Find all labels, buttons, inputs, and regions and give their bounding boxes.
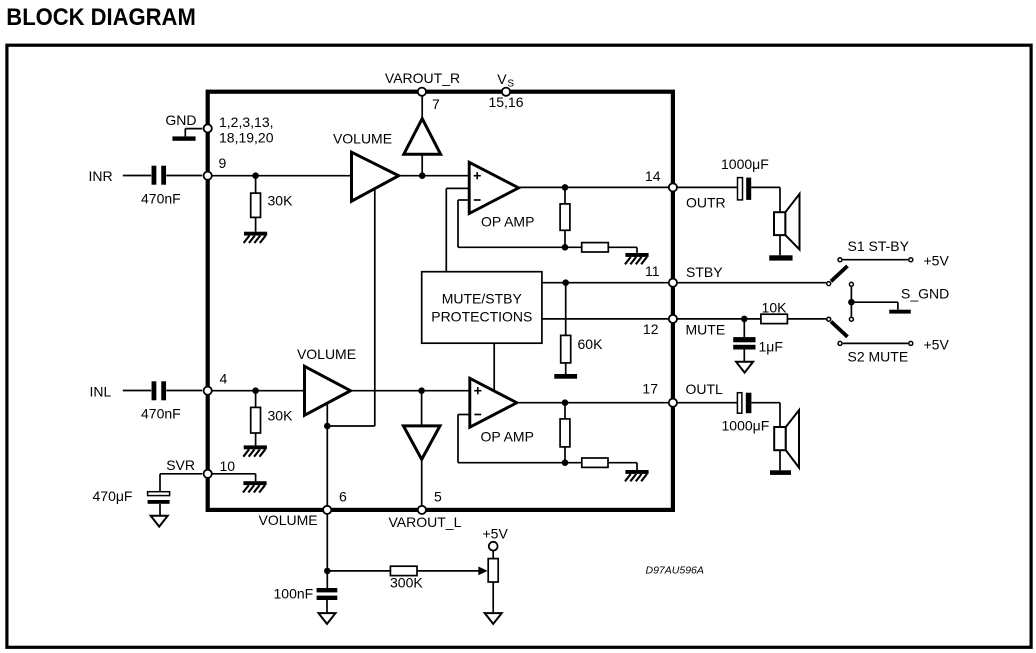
svg-text:VOLUME: VOLUME bbox=[297, 346, 356, 362]
wire node to R1 bbox=[255, 176, 257, 193]
ground (R6, hatched) bbox=[244, 445, 267, 449]
ground (R8, hatched) bbox=[625, 470, 648, 474]
wire R5 to switch S2 bbox=[787, 318, 826, 320]
svg-text:30K: 30K bbox=[268, 193, 294, 209]
wire pin 9 to volume R bbox=[211, 175, 351, 177]
wire U3 inverting input feedback bbox=[458, 414, 470, 416]
svg-text:MUTE/STBY: MUTE/STBY bbox=[442, 291, 523, 307]
wire B1 apex to pin 7 bbox=[421, 96, 423, 120]
potentiometer RV1 body bbox=[488, 559, 498, 582]
node U2 output junction bbox=[562, 184, 569, 191]
svg-text:PROTECTIONS: PROTECTIONS bbox=[431, 309, 532, 325]
terminal +5V (potentiometer) bbox=[489, 542, 498, 551]
switch S1 pole contact bbox=[827, 282, 831, 286]
wire R2 to feedback node bbox=[564, 230, 566, 247]
node L-channel input junction bbox=[252, 387, 259, 394]
svg-text:17: 17 bbox=[642, 381, 658, 397]
wire C1 to pin 9 bbox=[166, 175, 202, 177]
pin 10 (SVR) bbox=[204, 470, 212, 478]
resistor R7 feedback (left, vertical) bbox=[560, 419, 570, 447]
wire GND pin to ground symbol bbox=[185, 128, 202, 130]
svg-text:14: 14 bbox=[645, 168, 661, 184]
svg-text:V: V bbox=[497, 71, 507, 87]
svg-text:INR: INR bbox=[89, 168, 113, 184]
capacitor C6 470uF (electrolytic) bbox=[148, 492, 170, 496]
svg-text:OUTR: OUTR bbox=[686, 195, 726, 211]
ground (RV1 triangle) bbox=[485, 613, 502, 624]
capacitor C4 470nF (INL input) bbox=[152, 381, 157, 400]
svg-text:VOLUME: VOLUME bbox=[259, 512, 318, 528]
svg-text:100nF: 100nF bbox=[274, 586, 314, 602]
svg-text:12: 12 bbox=[643, 321, 659, 337]
resistor R9 300K bbox=[390, 566, 417, 575]
node STBY junction bbox=[562, 279, 569, 286]
wire feedback node to R8 bbox=[565, 462, 582, 464]
switch S1 lever bbox=[831, 266, 848, 281]
switch common link contact lower bbox=[849, 317, 853, 321]
node S_GND junction bbox=[848, 299, 855, 306]
block MUTE/STBY PROTECTIONS bbox=[422, 272, 542, 344]
svg-text:S2 MUTE: S2 MUTE bbox=[848, 349, 909, 365]
wire node to R4 bbox=[565, 283, 567, 336]
wire node to C3 bbox=[743, 319, 745, 337]
switch S2 lever bbox=[831, 322, 848, 337]
wire R1 to ground bbox=[255, 217, 257, 231]
wire terminal to RV1 bbox=[492, 551, 494, 559]
ground (R1, hatched) bbox=[244, 232, 267, 236]
svg-text:5: 5 bbox=[434, 489, 442, 505]
op-amp U2 OP AMP (right) bbox=[469, 162, 518, 213]
wire R3 to ground bbox=[608, 246, 637, 248]
wire node to R7 bbox=[564, 403, 566, 419]
svg-text:OP AMP: OP AMP bbox=[481, 214, 534, 230]
speaker LS2 (left) bbox=[774, 427, 786, 450]
wire C6 to ground bbox=[159, 504, 161, 516]
wire feedback node to R3 bbox=[565, 246, 582, 248]
wire S1 contact to +5V terminal bbox=[843, 259, 908, 261]
ground (C3 triangle) bbox=[736, 362, 753, 373]
wire protections to pin 12 bbox=[542, 318, 668, 320]
resistor R3 feedback (right, horizontal) bbox=[582, 243, 609, 252]
capacitor C7 100nF bbox=[317, 588, 338, 592]
resistor R6 30K (left) bbox=[251, 407, 261, 433]
wire R4 to ground bbox=[565, 363, 567, 374]
switch S2 fixed contact bbox=[838, 341, 842, 345]
wire volume control line (pin 6) bbox=[326, 402, 328, 505]
wire LS2 to ground bbox=[779, 450, 781, 470]
wire INL lead bbox=[123, 390, 151, 392]
svg-text:S_GND: S_GND bbox=[901, 286, 949, 302]
svg-text:OP AMP: OP AMP bbox=[481, 429, 534, 445]
svg-text:60K: 60K bbox=[578, 336, 604, 352]
wire node to S_GND ground bbox=[851, 301, 898, 303]
wire pin 17 to C5 bbox=[677, 402, 737, 404]
ground (SVR, hatched) bbox=[243, 481, 266, 485]
wire pin 11 to S1 bbox=[677, 282, 826, 284]
wire R9 to potentiometer wiper bbox=[417, 570, 480, 572]
pin 9 (INR) bbox=[204, 172, 212, 180]
resistor R8 feedback (left, horizontal) bbox=[582, 458, 608, 467]
wire C4 to pin 4 bbox=[166, 390, 202, 392]
wire A2 output to op-amp bbox=[351, 390, 470, 392]
svg-text:BLOCK DIAGRAM: BLOCK DIAGRAM bbox=[6, 4, 196, 31]
svg-text:+5V: +5V bbox=[924, 336, 950, 352]
svg-text:STBY: STBY bbox=[686, 264, 723, 280]
svg-text:10K: 10K bbox=[762, 300, 788, 316]
svg-text:1000μF: 1000μF bbox=[721, 156, 769, 172]
svg-text:S1 ST-BY: S1 ST-BY bbox=[848, 238, 910, 254]
node U3 feedback junction bbox=[562, 459, 569, 466]
svg-text:470nF: 470nF bbox=[141, 191, 181, 207]
svg-text:7: 7 bbox=[432, 96, 440, 112]
resistor R5 10K bbox=[761, 314, 788, 323]
terminal +5V (S1) bbox=[909, 258, 913, 262]
wire switch common link bbox=[850, 287, 852, 317]
svg-text:VOLUME: VOLUME bbox=[333, 131, 392, 147]
wire R8 to ground bbox=[608, 462, 637, 464]
ground (LS1 bar) bbox=[769, 255, 792, 260]
wire mute control to U3 bbox=[493, 343, 495, 391]
wire RV1 to ground bbox=[492, 582, 494, 613]
wire U2 output to pin 14 bbox=[519, 186, 669, 188]
resistor R2 feedback (right, vertical) bbox=[560, 204, 570, 230]
wire volume control feedback (right) bbox=[374, 189, 376, 427]
ground (C6 triangle) bbox=[151, 516, 168, 527]
node MUTE junction bbox=[741, 316, 748, 323]
wire pin 4 to volume L bbox=[211, 390, 305, 392]
wire INR lead bbox=[123, 175, 151, 177]
node R-channel input junction bbox=[252, 172, 259, 179]
pin 14 (OUTR) bbox=[669, 183, 677, 191]
svg-text:+5V: +5V bbox=[483, 526, 509, 542]
svg-text:18,19,20: 18,19,20 bbox=[219, 130, 274, 146]
svg-text:VAROUT_L: VAROUT_L bbox=[389, 514, 462, 530]
ground (R4 bar) bbox=[554, 374, 577, 379]
node U2 feedback junction bbox=[562, 244, 569, 251]
op-amp U3 OP AMP (left) bbox=[470, 378, 517, 427]
pin 11 (STBY) bbox=[669, 279, 677, 287]
svg-text:S: S bbox=[507, 79, 514, 90]
svg-text:INL: INL bbox=[90, 384, 112, 400]
svg-text:1,2,3,13,: 1,2,3,13, bbox=[219, 114, 274, 130]
svg-text:4: 4 bbox=[220, 371, 228, 387]
svg-text:1000μF: 1000μF bbox=[722, 418, 770, 434]
svg-text:1μF: 1μF bbox=[759, 339, 783, 355]
resistor R4 60K bbox=[561, 335, 571, 363]
pin 15,16 (Vs) bbox=[502, 88, 510, 96]
pin 17 (OUTL) bbox=[669, 399, 677, 407]
wire C5 to speaker LS2 bbox=[751, 402, 780, 404]
resistor R1 30K (right) bbox=[251, 193, 261, 217]
wire U2 inverting input feedback bbox=[458, 199, 469, 201]
wire node to C7 bbox=[326, 571, 328, 588]
wire pin 10 to ground (right) bbox=[211, 473, 255, 475]
wire mute control to U2 bbox=[445, 188, 447, 271]
buffer B2 VAROUT_L (points down) bbox=[403, 426, 440, 460]
wire R7 to feedback node bbox=[564, 447, 566, 463]
svg-text:OUTL: OUTL bbox=[686, 381, 724, 397]
pin 6 (VOLUME) bbox=[323, 506, 331, 514]
IC block outline U1 bbox=[208, 92, 673, 510]
node U3 output junction bbox=[562, 399, 569, 406]
wire pin 6 to bottom node bbox=[326, 514, 328, 571]
pin GND (1,2,3,13,18,19,20) bbox=[204, 124, 212, 132]
switch S2 pole contact bbox=[827, 317, 831, 321]
svg-text:470μF: 470μF bbox=[93, 488, 133, 504]
ground (R3, hatched) bbox=[625, 253, 648, 257]
svg-text:15,16: 15,16 bbox=[488, 94, 523, 110]
wire node down to buffer B2 bbox=[421, 391, 423, 426]
svg-text:D97AU596A: D97AU596A bbox=[646, 565, 704, 577]
wire R6 to ground bbox=[255, 433, 257, 445]
wire LS1 to ground bbox=[779, 235, 781, 255]
ground S_GND (bar) bbox=[889, 310, 911, 314]
wire pin 10 to C6 bbox=[160, 473, 202, 475]
wire pin 14 to C2 bbox=[677, 186, 737, 188]
svg-text:GND: GND bbox=[165, 112, 196, 128]
pin 12 (MUTE) bbox=[669, 315, 677, 323]
svg-text:9: 9 bbox=[219, 155, 227, 171]
node volume control junction bbox=[324, 423, 331, 430]
node bottom junction bbox=[324, 568, 331, 575]
speaker LS1 (right) bbox=[774, 212, 785, 235]
ground (LS2 bar) bbox=[770, 470, 791, 475]
volume amplifier A1 (right) bbox=[352, 152, 399, 201]
wire S2 contact to +5V terminal bbox=[843, 342, 908, 344]
svg-text:+5V: +5V bbox=[924, 253, 950, 269]
volume amplifier A2 (left) bbox=[305, 366, 351, 415]
svg-text:MUTE: MUTE bbox=[686, 322, 726, 338]
wire U3 output to pin 17 bbox=[517, 402, 668, 404]
svg-text:SVR: SVR bbox=[166, 457, 195, 473]
wire C2 to speaker LS1 bbox=[751, 186, 780, 188]
capacitor C1 470nF (INR input) bbox=[152, 166, 157, 185]
ground (GND pin bar) bbox=[172, 136, 195, 140]
svg-text:6: 6 bbox=[339, 489, 347, 505]
ground (C7 triangle) bbox=[319, 613, 336, 624]
buffer B1 VAROUT_R (points up) bbox=[404, 119, 441, 155]
svg-text:11: 11 bbox=[645, 263, 660, 279]
svg-text:300K: 300K bbox=[390, 575, 423, 591]
capacitor C3 1uF bbox=[733, 337, 755, 342]
wire A1 output to op-amp bbox=[399, 175, 470, 177]
pin 4 (INL) bbox=[204, 387, 212, 395]
capacitor C2 1000uF (OUTR) bbox=[738, 178, 743, 200]
switch common link contact upper bbox=[849, 282, 853, 286]
switch S1 fixed contact bbox=[838, 258, 842, 262]
wire node to R2 bbox=[564, 187, 566, 204]
node VAROUT_L junction bbox=[418, 387, 425, 394]
node VAROUT_R junction bbox=[419, 172, 426, 179]
svg-text:470nF: 470nF bbox=[141, 406, 181, 422]
capacitor C5 1000uF (OUTL) bbox=[737, 393, 742, 414]
svg-text:10: 10 bbox=[220, 458, 236, 474]
svg-text:VAROUT_R: VAROUT_R bbox=[385, 70, 460, 86]
wire C3 to ground bbox=[743, 350, 745, 362]
wire pin 12 to R5 bbox=[677, 318, 761, 320]
wire node up to buffer B1 bbox=[421, 154, 423, 176]
svg-text:30K: 30K bbox=[268, 408, 294, 424]
wire C7 to ground bbox=[326, 600, 328, 613]
pin 5 (VAROUT_L) bbox=[418, 506, 426, 514]
wire node to R6 bbox=[255, 391, 257, 408]
wire B2 apex to pin 5 bbox=[421, 458, 423, 505]
terminal +5V (S2) bbox=[909, 341, 913, 345]
wire node to R9 bbox=[327, 570, 390, 572]
wire protections to pin 11 bbox=[542, 282, 668, 284]
wiper arrow of potentiometer RV1 bbox=[478, 567, 487, 576]
pin 7 (VAROUT_R) bbox=[418, 88, 426, 96]
